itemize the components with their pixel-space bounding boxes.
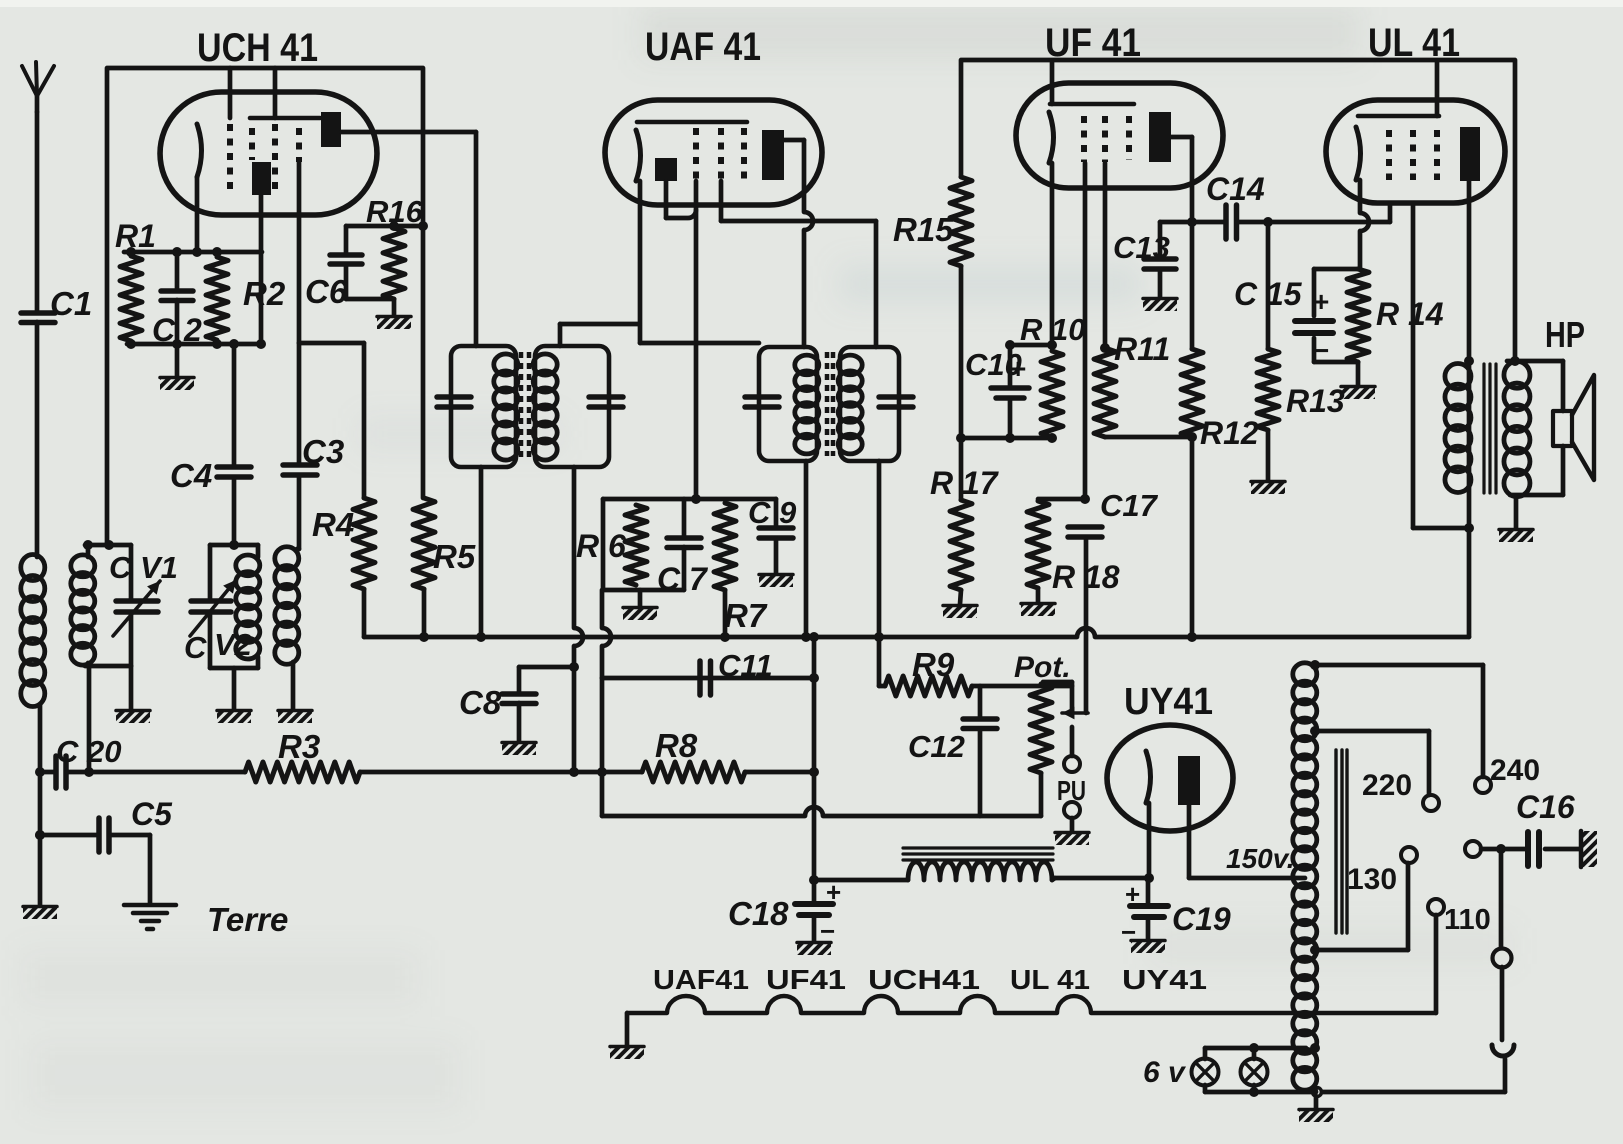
svg-text:R2: R2 [243, 275, 286, 312]
svg-text:C10: C10 [965, 347, 1022, 382]
svg-text:UAF 41: UAF 41 [645, 25, 761, 69]
svg-text:R1: R1 [115, 218, 156, 254]
svg-text:C 9: C 9 [748, 495, 797, 530]
svg-text:C1: C1 [50, 285, 92, 322]
svg-text:R16: R16 [366, 194, 424, 229]
svg-text:6 v: 6 v [1143, 1056, 1187, 1089]
svg-text:C 2: C 2 [152, 312, 202, 348]
svg-text:C: C [184, 630, 207, 665]
svg-text:R9: R9 [912, 646, 955, 683]
svg-text:C V1: C V1 [109, 550, 178, 585]
svg-text:R 14: R 14 [1376, 296, 1444, 332]
svg-text:UL 41: UL 41 [1368, 21, 1460, 65]
svg-text:C18: C18 [728, 895, 789, 932]
svg-text:R12: R12 [1200, 415, 1259, 451]
svg-text:C13: C13 [1113, 230, 1170, 265]
svg-text:UL 41: UL 41 [1010, 964, 1090, 995]
svg-text:C11: C11 [718, 648, 773, 683]
svg-text:110: 110 [1444, 904, 1491, 936]
svg-text:C6: C6 [305, 273, 348, 310]
svg-text:UY41: UY41 [1124, 681, 1213, 723]
svg-text:130: 130 [1347, 863, 1397, 896]
svg-text:R 6: R 6 [576, 528, 626, 564]
svg-text:Terre: Terre [207, 901, 288, 938]
svg-text:240: 240 [1490, 754, 1540, 787]
svg-text:HP: HP [1545, 314, 1585, 355]
svg-text:UF41: UF41 [766, 964, 846, 995]
svg-text:R 18: R 18 [1052, 559, 1120, 595]
svg-text:R15: R15 [893, 211, 954, 248]
svg-text:C16: C16 [1516, 789, 1575, 825]
svg-text:UY41: UY41 [1122, 964, 1207, 995]
svg-text:C19: C19 [1172, 901, 1231, 937]
svg-text:R5: R5 [433, 538, 476, 575]
svg-text:220: 220 [1362, 769, 1412, 802]
svg-text:R 10: R 10 [1020, 312, 1085, 347]
svg-text:UCH41: UCH41 [868, 964, 980, 995]
svg-text:C8: C8 [459, 684, 502, 721]
svg-text:R8: R8 [655, 727, 698, 764]
svg-text:C12: C12 [908, 729, 965, 764]
svg-text:R13: R13 [1286, 383, 1345, 419]
svg-text:V2: V2 [214, 627, 252, 662]
svg-text:R 17: R 17 [930, 465, 1000, 501]
svg-text:R11: R11 [1114, 331, 1170, 367]
svg-text:+: + [1125, 879, 1140, 909]
svg-text:UAF41: UAF41 [653, 964, 749, 995]
svg-text:C5: C5 [131, 796, 173, 832]
svg-text:R4: R4 [312, 506, 354, 543]
svg-text:R3: R3 [278, 728, 320, 765]
svg-text:C3: C3 [302, 433, 344, 470]
svg-text:UF 41: UF 41 [1045, 21, 1141, 65]
svg-text:C 7: C 7 [657, 561, 709, 597]
svg-text:C17: C17 [1100, 488, 1159, 523]
svg-text:150v.: 150v. [1226, 843, 1295, 874]
svg-text:Pot.: Pot. [1014, 651, 1071, 684]
svg-text:C4: C4 [170, 457, 212, 494]
svg-text:+: + [826, 877, 841, 907]
svg-text:+: + [1313, 286, 1329, 317]
svg-text:C14: C14 [1206, 171, 1265, 207]
svg-text:UCH 41: UCH 41 [197, 26, 318, 70]
svg-text:R7: R7 [724, 597, 768, 634]
